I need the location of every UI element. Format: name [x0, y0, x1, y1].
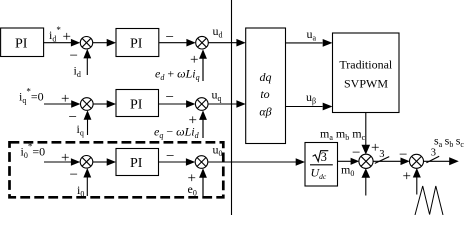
- arrowhead into J1b bottom: [199, 49, 207, 59]
- svg-text:−: −: [166, 89, 174, 105]
- triangular carrier waveform: [415, 186, 443, 215]
- wire u_d to dq block: [208, 42, 238, 44]
- arrowhead into J1a: [71, 39, 80, 47]
- summing junction J3a: [80, 156, 93, 169]
- sqrt radical sign: [313, 151, 329, 162]
- svg-text:−: −: [70, 48, 78, 64]
- arrowhead u_alpha into SVPWM: [323, 39, 333, 47]
- svg-text:−: −: [166, 149, 174, 165]
- svg-text:PI: PI: [130, 156, 143, 171]
- wire JM1 to JM2: [373, 160, 401, 162]
- mixer junction JM1: [359, 154, 373, 168]
- wire i_q* input: [44, 103, 73, 105]
- svg-text:PI: PI: [130, 98, 143, 113]
- wire i_q feedback into J2a: [87, 118, 89, 135]
- wire J1a to PI2: [93, 42, 109, 44]
- svg-text:SVPWM: SVPWM: [344, 77, 388, 91]
- output arrowhead: [449, 157, 459, 165]
- arrowhead into J3a: [71, 158, 80, 166]
- output wire s_a s_b s_c: [424, 160, 450, 162]
- arrowhead into JM1 top: [362, 145, 371, 155]
- wire PI4 to junction J3b: [159, 161, 190, 163]
- summing junction J2a: [81, 98, 94, 111]
- svg-text:−: −: [166, 30, 174, 46]
- svg-text:3: 3: [431, 148, 436, 159]
- svg-text:−: −: [70, 167, 78, 183]
- wire u_alpha to SVPWM: [286, 42, 323, 44]
- wire u_beta to SVPWM: [286, 106, 323, 108]
- svg-text:+: +: [371, 140, 379, 156]
- summing junction J1b: [196, 36, 209, 49]
- wire i_0* input: [44, 161, 73, 163]
- bus slash tick 2: [426, 156, 439, 163]
- wire i_d feedback into J1a: [86, 57, 88, 76]
- svg-text:PI: PI: [130, 37, 143, 52]
- svg-text:−: −: [352, 145, 360, 161]
- svg-text:to: to: [260, 87, 269, 101]
- wire e_d+wLiq into J1b: [202, 57, 204, 81]
- wire PI2 to junction J1b: [159, 42, 190, 44]
- dq to alpha-beta block: [246, 28, 286, 144]
- wire J2a to PI3: [93, 103, 108, 105]
- arrowhead m_0 into JM1: [351, 158, 360, 165]
- wire carrier into JM2 from below: [416, 176, 418, 195]
- arrowhead into JM1 bottom: [362, 168, 371, 178]
- PI block 2 (d-axis current controller): [116, 29, 159, 57]
- dashed zero-sequence box: [10, 142, 224, 197]
- arrowhead into PI2: [107, 39, 116, 47]
- sqrt3 over Udc block: [305, 143, 338, 187]
- arrowhead into J3b bottom: [199, 168, 207, 178]
- svg-text:dq: dq: [260, 70, 272, 84]
- wire u_q to dq block: [208, 103, 238, 105]
- arrowhead i_0 into J3a: [83, 168, 91, 178]
- vertical bus line: [231, 0, 233, 215]
- fraction bar: [310, 164, 333, 166]
- wire e_0 into J3b: [202, 176, 204, 196]
- wire m_0 to JM1: [338, 160, 352, 162]
- mixer junction JM2: [410, 154, 424, 168]
- Traditional SVPWM block: [333, 33, 400, 113]
- bus slash tick 1: [375, 157, 389, 164]
- arrowhead into J3b: [186, 158, 195, 166]
- summing junction J1a: [80, 37, 92, 49]
- arrowhead into J1b: [186, 39, 195, 47]
- arrowhead into PI4: [107, 158, 116, 166]
- arrowhead into PI3: [107, 100, 116, 108]
- wire into JM1 from below: [365, 176, 367, 196]
- summing junction J2b: [195, 98, 208, 111]
- arrowhead u_beta into SVPWM: [323, 103, 333, 111]
- svg-text:PI: PI: [15, 37, 28, 52]
- arrowhead u_d into dq block: [236, 39, 245, 47]
- wire J3a to PI4: [93, 161, 109, 163]
- svg-text:+: +: [61, 91, 69, 107]
- arrowhead into J2a: [71, 100, 80, 108]
- PI block 4 (zero-sequence controller): [116, 149, 159, 176]
- wire u_0 to sqrt3/Udc block: [208, 161, 298, 163]
- summing junction J3b: [195, 156, 208, 169]
- wire e_q-wLid into J2b: [202, 118, 204, 138]
- svg-text:3: 3: [379, 149, 384, 160]
- arrowhead into J2b: [186, 100, 195, 108]
- arrowhead into J2b bottom: [199, 110, 207, 120]
- PI block 3 (q-axis current controller): [116, 90, 159, 117]
- wire PI3 to junction J2b: [159, 103, 190, 105]
- svg-text:3: 3: [321, 150, 327, 164]
- svg-text:αβ: αβ: [259, 105, 271, 119]
- arrowhead u_q into dq block: [236, 100, 245, 108]
- PI block 1 (d-axis, left, clipped): [1, 28, 44, 57]
- arrowhead i_d into J1a: [83, 49, 91, 59]
- arrowhead u_0 into sqrt3/Udc block: [296, 158, 305, 166]
- wire PI1 to junction J1a: [43, 42, 73, 44]
- arrowhead i_q into J2a: [84, 110, 92, 120]
- svg-text:Traditional: Traditional: [339, 58, 393, 72]
- svg-text:sa sb sc: sa sb sc: [434, 134, 464, 150]
- svg-text:+: +: [63, 29, 71, 45]
- svg-text:ma mb mc: ma mb mc: [320, 127, 366, 143]
- arrowhead into JM2 bottom: [413, 168, 421, 178]
- wire SVPWM down to mixer JM1: [365, 113, 367, 151]
- svg-text:+: +: [61, 150, 69, 166]
- arrowhead into JM2: [401, 158, 410, 166]
- wire i_0 feedback into J3a: [86, 176, 88, 196]
- svg-text:−: −: [399, 147, 407, 163]
- svg-text:+: +: [403, 169, 411, 185]
